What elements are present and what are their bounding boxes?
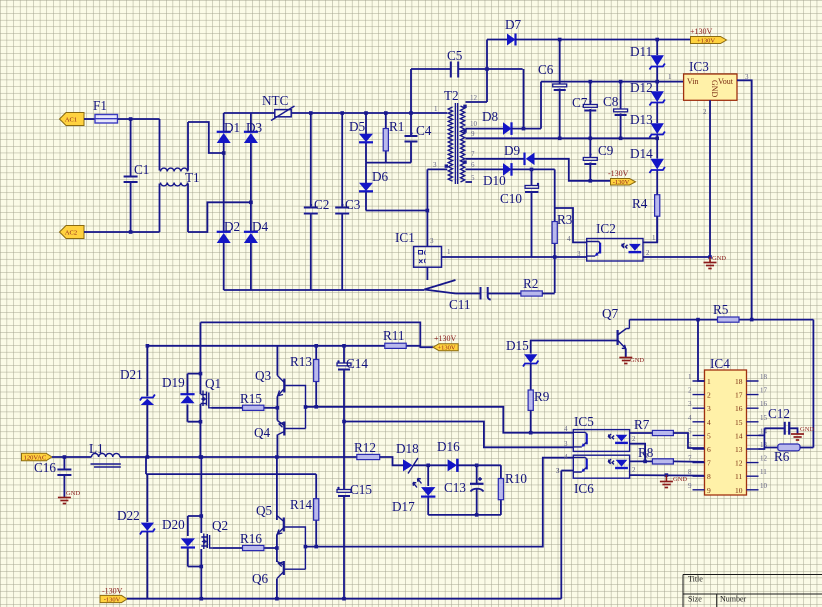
svg-text:D7: D7 xyxy=(505,17,522,32)
resistor R2 xyxy=(521,276,542,296)
node D5 top xyxy=(364,111,368,115)
node Q2 drain joint xyxy=(200,514,204,518)
svg-text:18: 18 xyxy=(735,377,743,386)
capacitor C6 xyxy=(538,40,567,139)
wire output mid rail xyxy=(52,456,357,458)
capacitor C15 xyxy=(337,482,372,497)
port 120VAC xyxy=(22,453,53,461)
svg-text:IC1: IC1 xyxy=(395,230,415,245)
svg-text:Vout: Vout xyxy=(718,77,734,86)
diode D7 xyxy=(505,17,522,46)
node Q1 output rail xyxy=(199,455,203,459)
port +130V mid xyxy=(433,344,458,352)
node C15 bottom rail xyxy=(342,597,346,601)
svg-text:L1: L1 xyxy=(89,441,104,456)
node C10 tap xyxy=(530,168,534,172)
resistor R13 xyxy=(290,346,319,407)
node Q6 bus bottom xyxy=(200,597,204,601)
wire T2 pin12 xyxy=(466,101,488,103)
wire arrow to C11 xyxy=(456,293,481,295)
resistor R12 xyxy=(354,440,380,460)
wire D17 bottom rail xyxy=(428,514,501,516)
svg-text:D21: D21 xyxy=(120,367,143,382)
resistor R4 xyxy=(632,195,660,217)
wire AC2 bottom rail to T1 xyxy=(84,231,160,233)
wire pin3 line to IC5 xyxy=(344,422,573,448)
node R14 bottom xyxy=(314,545,318,549)
wire IC3 input line xyxy=(541,81,684,83)
svg-text:C5: C5 xyxy=(447,48,463,63)
node C1 top xyxy=(129,117,133,121)
svg-text:D11: D11 xyxy=(630,44,652,59)
svg-text:Size: Size xyxy=(688,595,702,604)
wire top drive rail xyxy=(147,345,420,347)
svg-text:R12: R12 xyxy=(354,440,376,455)
wire IC4 pin1 feed xyxy=(698,320,705,381)
svg-text:T1: T1 xyxy=(185,170,200,185)
wire D7 anode branch xyxy=(487,40,507,103)
svg-text:Q7: Q7 xyxy=(602,306,619,321)
wire T2 pin5 stub xyxy=(466,181,473,183)
svg-text:10: 10 xyxy=(735,486,743,495)
svg-text:17: 17 xyxy=(735,391,743,400)
svg-text:D1: D1 xyxy=(224,120,240,135)
wire IC4 pin14 to C12 xyxy=(759,428,785,447)
wire Q1 drain to +130V xyxy=(201,322,434,347)
capacitor C12 xyxy=(768,406,790,435)
diode D16 xyxy=(437,439,460,472)
diode D17 led xyxy=(392,465,435,515)
node R16 bus tap xyxy=(275,546,279,550)
wire bottom DC rail xyxy=(224,289,425,291)
svg-text:+130V: +130V xyxy=(690,27,713,36)
wire IC3 Vout to right bus xyxy=(737,80,752,319)
svg-text:R8: R8 xyxy=(638,445,654,460)
node D11 top xyxy=(655,38,659,42)
svg-text:-130V: -130V xyxy=(104,596,121,603)
node R9 bottom tap xyxy=(529,431,533,435)
svg-text:8: 8 xyxy=(688,468,692,476)
node C14 top xyxy=(342,344,346,348)
svg-text:D5: D5 xyxy=(349,119,366,134)
diode D2 xyxy=(217,219,240,243)
diode D8 xyxy=(482,109,512,135)
wire bridge left column xyxy=(223,113,225,290)
transistor Q3 xyxy=(255,346,306,457)
diode D3 xyxy=(244,120,263,143)
node C1 bottom xyxy=(129,230,133,234)
wire C11 to R2 xyxy=(488,293,521,295)
port -130V bottom xyxy=(100,595,127,603)
svg-text:R15: R15 xyxy=(240,391,262,406)
svg-text:12: 12 xyxy=(470,94,478,102)
ground GND under IC3 xyxy=(704,255,727,269)
ground GND under C16 xyxy=(58,490,80,504)
capacitor C1 xyxy=(124,119,150,232)
svg-text:Title: Title xyxy=(688,575,703,584)
capacitor C5 xyxy=(447,48,463,78)
svg-text:7: 7 xyxy=(688,455,692,463)
svg-text:GND: GND xyxy=(710,80,719,98)
wire D16 to R10 xyxy=(457,464,501,466)
svg-text:7: 7 xyxy=(471,150,475,158)
svg-text:R14: R14 xyxy=(290,497,312,512)
svg-text:D12: D12 xyxy=(630,80,653,95)
svg-text:C3: C3 xyxy=(345,197,361,212)
node D21 output rail xyxy=(146,455,150,459)
node IC3 GND join xyxy=(708,255,712,259)
node C7 top xyxy=(589,80,593,84)
svg-text:4: 4 xyxy=(567,235,571,243)
optocoupler IC5 xyxy=(573,414,629,451)
svg-text:R3: R3 xyxy=(557,212,573,227)
svg-text:C15: C15 xyxy=(350,482,372,497)
svg-text:-130V: -130V xyxy=(102,587,123,596)
svg-text:-130V: -130V xyxy=(613,179,630,186)
svg-text:5: 5 xyxy=(471,174,475,182)
svg-text:GND: GND xyxy=(630,357,644,364)
svg-text:T2: T2 xyxy=(444,88,459,103)
svg-text:R16: R16 xyxy=(240,531,262,546)
svg-text:C1: C1 xyxy=(134,162,149,177)
wire IC6 pin2 to IC4 pin8 xyxy=(630,474,705,477)
diode D4 xyxy=(244,219,269,243)
wire C5 line xyxy=(411,69,523,113)
IC4 pin numbers inside left xyxy=(707,377,711,495)
diode D12 zener xyxy=(630,80,665,106)
svg-text:2: 2 xyxy=(632,466,636,474)
svg-text:6: 6 xyxy=(688,441,692,449)
wire Q7 base to D15 xyxy=(531,341,618,354)
diode D1 xyxy=(217,120,240,143)
svg-text:R7: R7 xyxy=(634,417,650,432)
node bus output rail xyxy=(275,455,279,459)
svg-text:R9: R9 xyxy=(534,389,550,404)
thermistor NTC xyxy=(262,93,295,121)
node R5 right IC3 junction xyxy=(750,318,754,322)
diode D21 zener xyxy=(120,346,155,457)
diode D13 zener xyxy=(630,112,665,138)
transformer T1 common-mode choke xyxy=(160,119,200,232)
node D17 tap xyxy=(426,464,430,468)
wire T2 pin10 to D8 xyxy=(466,128,504,130)
wire right edge bus xyxy=(812,320,814,448)
resistor R15 xyxy=(212,391,278,410)
svg-text:-130V: -130V xyxy=(608,169,629,178)
node Q3 Q4 base join xyxy=(304,405,308,409)
svg-text:D15: D15 xyxy=(506,338,529,353)
svg-text:5: 5 xyxy=(707,431,711,440)
wire Q7 collector line xyxy=(629,319,813,321)
node x523 crossings xyxy=(522,127,526,131)
capacitor C8 xyxy=(603,82,628,139)
wire IC1 output line xyxy=(442,256,587,258)
svg-text:IC3: IC3 xyxy=(689,59,709,74)
svg-text:D18: D18 xyxy=(396,441,419,456)
transistor Q5 xyxy=(256,457,305,599)
svg-text:D3: D3 xyxy=(246,120,263,135)
node R1 top xyxy=(384,111,388,115)
svg-text:C14: C14 xyxy=(346,356,368,371)
svg-text:1: 1 xyxy=(668,73,672,81)
svg-text:GND: GND xyxy=(66,490,80,497)
wire IC4 pin13 R6 line xyxy=(759,448,778,450)
svg-text:R1: R1 xyxy=(389,119,404,134)
node Q1 source joint xyxy=(199,420,203,424)
wire T1 to bridge left (AC1 side) xyxy=(188,122,224,153)
svg-text:Q5: Q5 xyxy=(256,503,273,518)
node C13 top xyxy=(475,464,479,468)
svg-text:Q6: Q6 xyxy=(252,571,269,586)
svg-text:15: 15 xyxy=(760,414,768,422)
connector IC4 xyxy=(705,356,747,495)
wire drive line to IC6 pin4 xyxy=(305,458,573,547)
svg-text:C6: C6 xyxy=(538,62,554,77)
wire C12 to ground xyxy=(789,428,797,433)
op-amp IC1 controller xyxy=(395,230,442,267)
svg-text:5: 5 xyxy=(688,427,692,435)
svg-text:D17: D17 xyxy=(392,499,415,514)
resistor R16 xyxy=(212,531,277,551)
node C14 bottom tap xyxy=(342,420,346,424)
wire R4 bottom to IC2 pin1 xyxy=(656,241,658,243)
wire IC2 pin1 to R4 xyxy=(643,216,657,242)
wire IC1 bottom pin xyxy=(426,267,428,280)
capacitor C4 xyxy=(405,113,432,163)
svg-text:4: 4 xyxy=(564,425,568,433)
node C5 D7 junction xyxy=(485,67,489,71)
wire pin9 line xyxy=(466,137,658,139)
node bus bottom rail xyxy=(275,597,279,601)
svg-text:GND: GND xyxy=(673,476,687,483)
diode D5 xyxy=(349,113,373,163)
svg-text:12: 12 xyxy=(760,455,768,463)
svg-text:Q2: Q2 xyxy=(212,518,228,533)
svg-text:16: 16 xyxy=(735,404,743,413)
optocoupler IC6 xyxy=(573,455,629,496)
fuse F1 xyxy=(93,98,118,123)
node R15 bus tap xyxy=(276,406,280,410)
svg-text:C13: C13 xyxy=(444,480,466,495)
diode D18 xyxy=(396,441,419,474)
svg-text:R5: R5 xyxy=(713,302,729,317)
svg-text:3: 3 xyxy=(707,404,711,413)
node C16 tap xyxy=(63,455,67,459)
svg-text:R4: R4 xyxy=(632,196,648,211)
optocoupler IC2 xyxy=(587,221,643,261)
svg-text:IC4: IC4 xyxy=(710,356,730,371)
transistor Q6 xyxy=(252,547,305,586)
svg-text:D4: D4 xyxy=(252,219,269,234)
node C8 bottom xyxy=(619,137,623,141)
node R3 output tap xyxy=(553,255,557,259)
svg-text:GND: GND xyxy=(800,426,814,433)
diode D11 zener xyxy=(630,44,665,70)
svg-text:1: 1 xyxy=(434,105,438,113)
wire Q6 emitter line to IC6 pin3 xyxy=(561,471,573,599)
svg-text:11: 11 xyxy=(760,468,767,476)
node Q1 drain joint xyxy=(199,372,203,376)
svg-text:D8: D8 xyxy=(482,109,499,124)
ground GND under Q7 xyxy=(619,357,644,364)
wire -130V bottom rail xyxy=(127,598,561,600)
node feedback arrow xyxy=(424,280,455,294)
node R8 line join xyxy=(643,460,647,464)
IC4 pin numbers inside right xyxy=(735,377,743,495)
svg-text:D20: D20 xyxy=(162,517,185,532)
svg-text:15: 15 xyxy=(735,418,743,427)
wire R3 branch to IC2 pin4 xyxy=(555,208,587,242)
wire D5 R1 C4 bottom link xyxy=(366,162,411,164)
IC4 left pin stubs xyxy=(693,381,705,490)
svg-text:14: 14 xyxy=(735,431,743,440)
svg-text:10: 10 xyxy=(760,482,768,490)
inductor L1 xyxy=(89,441,121,467)
svg-text:C8: C8 xyxy=(603,94,619,109)
wire IC3 GND pin down xyxy=(709,100,711,257)
svg-text:D9: D9 xyxy=(504,143,521,158)
node R13 top xyxy=(314,344,318,348)
wire drive line to IC5 pin4 xyxy=(306,407,574,433)
svg-text:11: 11 xyxy=(735,472,742,481)
port AC2 xyxy=(60,226,85,239)
wire IC6 out to R8 xyxy=(630,460,653,462)
svg-text:D6: D6 xyxy=(372,169,389,184)
svg-text:9: 9 xyxy=(471,130,475,138)
wire D8 cathode to C6 xyxy=(512,82,542,129)
svg-text:2: 2 xyxy=(688,387,692,395)
wire D6 to T2 pin3 and IC1 xyxy=(366,169,447,246)
node GND tap pin8 line xyxy=(665,473,669,477)
svg-text:Number: Number xyxy=(720,595,747,604)
svg-text:C11: C11 xyxy=(449,297,471,312)
svg-text:R10: R10 xyxy=(505,471,527,486)
node Q2 source joint xyxy=(200,565,204,569)
diode D10 xyxy=(483,163,512,188)
svg-text:3: 3 xyxy=(688,400,692,408)
svg-text:D22: D22 xyxy=(117,508,140,523)
svg-text:R2: R2 xyxy=(523,276,538,291)
resistor R1 xyxy=(383,113,404,163)
node C6 bottom pin9 xyxy=(558,137,562,141)
port +130V top xyxy=(691,37,727,45)
svg-text:8: 8 xyxy=(707,472,711,481)
svg-text:C10: C10 xyxy=(500,191,522,206)
wire T2 pin7 to D9 xyxy=(466,158,525,160)
transistor Q2 mosfet xyxy=(181,457,228,599)
svg-text:C7: C7 xyxy=(572,95,588,110)
node Q5 Q6 base join xyxy=(304,545,308,549)
node C9 bottom xyxy=(589,179,593,183)
resistor R7 xyxy=(634,417,673,436)
node Q2 rail joint xyxy=(200,455,204,459)
capacitor C2 xyxy=(304,113,330,290)
port -130V xyxy=(611,179,636,187)
svg-text:IC6: IC6 xyxy=(574,481,594,496)
node pin9 D13 tap xyxy=(655,137,659,141)
wire F1 to T1 top xyxy=(118,118,160,120)
svg-text:AC1: AC1 xyxy=(65,117,77,124)
svg-text:+130V: +130V xyxy=(434,334,457,343)
resistor R5 xyxy=(713,302,739,322)
svg-text:R6: R6 xyxy=(774,449,790,464)
node bridge left AC in xyxy=(222,151,226,155)
svg-text:1: 1 xyxy=(707,377,711,386)
node R13 bottom xyxy=(314,405,318,409)
svg-text:IC2: IC2 xyxy=(596,221,616,236)
node C6 top xyxy=(558,38,562,42)
svg-text:6: 6 xyxy=(471,161,475,169)
capacitor C16 xyxy=(34,457,71,497)
svg-text:Q3: Q3 xyxy=(255,368,272,383)
svg-text:2: 2 xyxy=(707,391,711,400)
node C2 top xyxy=(309,111,313,115)
svg-text:9: 9 xyxy=(688,482,692,490)
svg-text:NTC: NTC xyxy=(262,93,289,108)
wire D18 to D16 xyxy=(414,464,448,466)
wire C5 drop vertical xyxy=(523,69,525,129)
svg-text:3: 3 xyxy=(430,237,434,245)
transistor Q1 mosfet xyxy=(180,322,221,457)
port AC1 xyxy=(60,113,85,126)
svg-text:12: 12 xyxy=(735,459,743,468)
capacitor C11 xyxy=(449,287,491,312)
diode D6 xyxy=(359,163,389,211)
ground GND at C12 xyxy=(791,426,814,440)
wire R12 to D18 xyxy=(380,457,403,465)
svg-text:C16: C16 xyxy=(34,460,56,475)
wire bridge right column xyxy=(250,113,252,290)
wire D11 chain column xyxy=(656,40,658,243)
capacitor C9 xyxy=(583,143,613,181)
svg-text:+130V: +130V xyxy=(437,345,455,352)
transistor Q4 xyxy=(254,407,306,440)
svg-text:2: 2 xyxy=(703,108,707,116)
capacitor C10 xyxy=(500,183,539,257)
wire AC1 to F1 xyxy=(84,118,95,120)
resistor R9 xyxy=(528,389,550,433)
svg-text:D10: D10 xyxy=(483,173,506,188)
svg-text:F1: F1 xyxy=(93,98,107,113)
svg-text:R11: R11 xyxy=(383,328,405,343)
wire D9 to -130V port xyxy=(535,159,611,181)
svg-text:Q1: Q1 xyxy=(205,376,221,391)
svg-text:D13: D13 xyxy=(630,112,653,127)
capacitor C3 xyxy=(335,113,361,290)
title block xyxy=(683,575,822,607)
wire IC5 out to R7 xyxy=(630,432,653,434)
diode D15 zener xyxy=(506,338,538,390)
svg-text:3: 3 xyxy=(564,440,568,448)
wire lower inner rail xyxy=(146,457,316,474)
wire R2 to R3 column xyxy=(542,293,554,295)
capacitor C7 xyxy=(572,82,597,157)
node bridge right AC in xyxy=(249,201,253,205)
svg-text:3: 3 xyxy=(433,161,437,169)
svg-text:D19: D19 xyxy=(162,375,185,390)
diode D9 xyxy=(504,143,535,165)
node D6 T2 junction xyxy=(426,209,430,213)
svg-text:2: 2 xyxy=(632,435,636,443)
IC4 external pin numbers left xyxy=(688,373,692,490)
node C3 top xyxy=(340,111,344,115)
svg-text:C12: C12 xyxy=(768,406,790,421)
transistor Q7 xyxy=(602,306,629,357)
svg-text:1: 1 xyxy=(447,248,451,256)
wire R8 to IC4 pin7 xyxy=(673,460,704,463)
svg-text:C4: C4 xyxy=(416,123,432,138)
wire R6 to right bus xyxy=(800,447,813,449)
